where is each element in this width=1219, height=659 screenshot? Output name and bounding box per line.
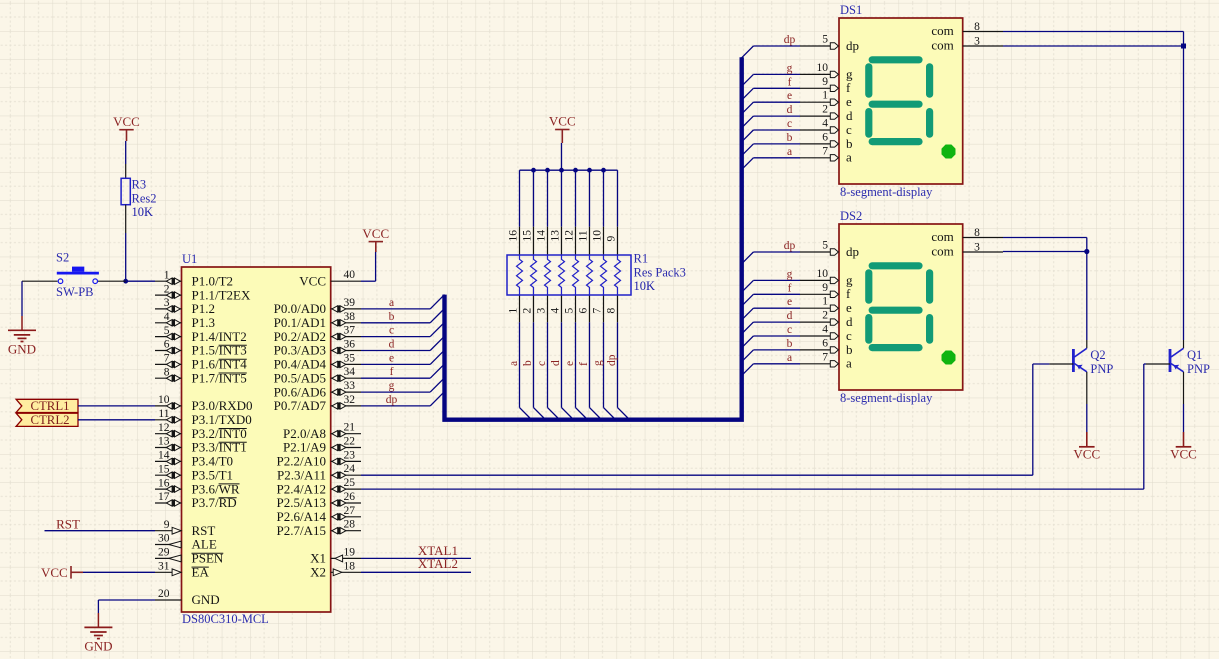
svg-text:g: g xyxy=(787,268,793,280)
svg-text:3: 3 xyxy=(974,242,980,254)
svg-text:P0.7/AD7: P0.7/AD7 xyxy=(274,398,327,413)
svg-text:P2.5/A13: P2.5/A13 xyxy=(277,495,326,510)
svg-text:P3.5/T1: P3.5/T1 xyxy=(192,467,234,482)
svg-text:d: d xyxy=(389,339,395,351)
svg-text:g: g xyxy=(592,360,604,366)
svg-text:VCC: VCC xyxy=(1073,447,1100,462)
svg-text:14: 14 xyxy=(158,450,170,462)
svg-text:GND: GND xyxy=(8,342,36,357)
svg-text:X2: X2 xyxy=(310,565,326,580)
svg-text:e: e xyxy=(787,296,792,308)
svg-text:36: 36 xyxy=(344,339,356,351)
svg-text:c: c xyxy=(536,361,548,366)
svg-text:10: 10 xyxy=(817,268,829,280)
svg-text:c: c xyxy=(787,324,792,336)
svg-text:7: 7 xyxy=(822,351,828,363)
svg-text:24: 24 xyxy=(344,463,356,475)
svg-text:38: 38 xyxy=(344,311,356,323)
svg-text:Res Pack3: Res Pack3 xyxy=(634,266,686,280)
svg-text:DS2: DS2 xyxy=(840,209,862,223)
svg-text:37: 37 xyxy=(344,325,356,337)
svg-text:P0.5/AD5: P0.5/AD5 xyxy=(274,370,326,385)
svg-text:6: 6 xyxy=(578,308,590,314)
svg-text:20: 20 xyxy=(158,588,170,600)
svg-text:6: 6 xyxy=(822,131,828,143)
svg-text:Q2: Q2 xyxy=(1090,348,1105,362)
svg-text:P3.4/T0: P3.4/T0 xyxy=(192,454,234,469)
svg-text:9: 9 xyxy=(822,282,828,294)
svg-text:P2.7/A15: P2.7/A15 xyxy=(277,523,326,538)
svg-text:18: 18 xyxy=(344,560,356,572)
svg-text:dp: dp xyxy=(784,240,796,252)
svg-text:3: 3 xyxy=(164,297,170,309)
svg-text:b: b xyxy=(846,342,853,357)
svg-text:8: 8 xyxy=(606,308,618,314)
svg-text:dp: dp xyxy=(784,34,796,46)
svg-text:13: 13 xyxy=(158,436,170,448)
svg-text:com: com xyxy=(931,229,953,244)
svg-text:VCC: VCC xyxy=(362,226,389,241)
svg-text:10K: 10K xyxy=(634,279,656,293)
svg-text:com: com xyxy=(931,38,953,53)
svg-text:2: 2 xyxy=(822,104,828,116)
svg-text:31: 31 xyxy=(158,561,170,573)
svg-text:8: 8 xyxy=(164,366,170,378)
svg-text:P0.0/AD0: P0.0/AD0 xyxy=(274,301,326,316)
svg-text:g: g xyxy=(787,62,793,74)
svg-text:10: 10 xyxy=(592,230,604,242)
svg-text:DS80C310-MCL: DS80C310-MCL xyxy=(182,612,269,626)
svg-text:2: 2 xyxy=(164,283,170,295)
svg-text:8: 8 xyxy=(974,21,980,33)
svg-text:13: 13 xyxy=(550,230,562,242)
svg-text:b: b xyxy=(846,136,853,151)
svg-text:14: 14 xyxy=(536,230,548,242)
svg-text:S2: S2 xyxy=(56,251,69,265)
svg-text:25: 25 xyxy=(344,477,356,489)
svg-text:10K: 10K xyxy=(132,205,154,219)
svg-text:8: 8 xyxy=(974,227,980,239)
svg-text:RST: RST xyxy=(56,516,80,531)
svg-text:d: d xyxy=(846,314,853,329)
svg-text:5: 5 xyxy=(164,325,170,337)
svg-text:P0.3/AD3: P0.3/AD3 xyxy=(274,343,326,358)
svg-text:CTRL2: CTRL2 xyxy=(30,413,69,427)
svg-text:VCC: VCC xyxy=(41,565,68,580)
svg-text:d: d xyxy=(550,360,562,366)
svg-text:ALE: ALE xyxy=(192,537,217,552)
svg-text:P1.0/T2: P1.0/T2 xyxy=(192,273,234,288)
svg-text:15: 15 xyxy=(158,463,170,475)
svg-text:a: a xyxy=(508,361,520,366)
svg-text:3: 3 xyxy=(974,36,980,48)
svg-text:P0.2/AD2: P0.2/AD2 xyxy=(274,329,326,344)
svg-text:2: 2 xyxy=(522,308,534,314)
svg-text:VCC: VCC xyxy=(113,114,140,129)
svg-text:22: 22 xyxy=(344,436,356,448)
svg-text:Res2: Res2 xyxy=(132,192,157,206)
svg-text:dp: dp xyxy=(386,394,398,406)
svg-text:U1: U1 xyxy=(182,252,197,266)
svg-text:4: 4 xyxy=(822,118,828,130)
svg-text:P2.6/A14: P2.6/A14 xyxy=(277,509,327,524)
svg-text:7: 7 xyxy=(822,145,828,157)
svg-text:P1.1/T2EX: P1.1/T2EX xyxy=(192,287,251,302)
svg-text:b: b xyxy=(787,132,793,144)
svg-text:VCC: VCC xyxy=(549,114,576,129)
svg-text:P0.1/AD1: P0.1/AD1 xyxy=(274,315,326,330)
svg-text:dp: dp xyxy=(846,244,859,259)
svg-text:11: 11 xyxy=(578,230,590,241)
svg-text:9: 9 xyxy=(606,236,618,242)
svg-text:P0.4/AD4: P0.4/AD4 xyxy=(274,357,327,372)
svg-text:15: 15 xyxy=(522,230,534,242)
svg-text:34: 34 xyxy=(344,366,356,378)
svg-text:d: d xyxy=(846,108,853,123)
svg-text:PNP: PNP xyxy=(1090,362,1113,376)
svg-text:P1.4/INT2: P1.4/INT2 xyxy=(192,329,247,344)
svg-text:PNP: PNP xyxy=(1187,362,1210,376)
svg-text:com: com xyxy=(931,23,953,38)
svg-text:9: 9 xyxy=(822,76,828,88)
svg-text:g: g xyxy=(846,272,853,287)
svg-text:SW-PB: SW-PB xyxy=(56,285,94,299)
svg-text:P1.3: P1.3 xyxy=(192,315,215,330)
svg-text:f: f xyxy=(788,282,792,294)
svg-text:e: e xyxy=(846,300,852,315)
svg-text:c: c xyxy=(846,328,852,343)
svg-text:b: b xyxy=(787,338,793,350)
svg-text:f: f xyxy=(390,366,394,378)
svg-text:a: a xyxy=(846,150,852,165)
svg-text:3: 3 xyxy=(536,308,548,314)
svg-text:e: e xyxy=(846,94,852,109)
svg-text:d: d xyxy=(787,310,793,322)
svg-text:com: com xyxy=(931,244,953,259)
svg-text:26: 26 xyxy=(344,491,356,503)
svg-text:8-segment-display: 8-segment-display xyxy=(840,185,933,199)
svg-text:f: f xyxy=(846,286,851,301)
svg-text:P2.1/A9: P2.1/A9 xyxy=(283,440,326,455)
svg-text:c: c xyxy=(846,122,852,137)
svg-text:5: 5 xyxy=(564,308,576,314)
svg-text:17: 17 xyxy=(158,491,170,503)
svg-text:P1.2: P1.2 xyxy=(192,301,215,316)
svg-text:7: 7 xyxy=(592,308,604,314)
svg-text:c: c xyxy=(787,118,792,130)
svg-text:X1: X1 xyxy=(310,551,326,566)
svg-text:d: d xyxy=(787,104,793,116)
svg-text:a: a xyxy=(846,356,852,371)
svg-text:40: 40 xyxy=(344,269,356,281)
svg-text:c: c xyxy=(389,325,394,337)
svg-text:23: 23 xyxy=(344,449,356,461)
svg-text:f: f xyxy=(846,80,851,95)
svg-text:Q1: Q1 xyxy=(1187,348,1202,362)
svg-text:16: 16 xyxy=(508,230,520,242)
svg-text:VCC: VCC xyxy=(1170,447,1197,462)
svg-text:R1: R1 xyxy=(634,252,649,266)
svg-text:a: a xyxy=(787,352,792,364)
svg-text:1: 1 xyxy=(164,269,170,281)
svg-text:RST: RST xyxy=(192,523,216,538)
svg-text:29: 29 xyxy=(158,547,170,559)
svg-text:21: 21 xyxy=(344,422,356,434)
svg-text:6: 6 xyxy=(822,337,828,349)
svg-text:VCC: VCC xyxy=(299,273,326,288)
svg-text:a: a xyxy=(389,297,394,309)
svg-text:DS1: DS1 xyxy=(840,3,862,17)
svg-text:12: 12 xyxy=(564,230,576,242)
svg-text:g: g xyxy=(846,66,853,81)
svg-text:30: 30 xyxy=(158,533,170,545)
svg-text:1: 1 xyxy=(822,296,828,308)
svg-text:P3.1/TXD0: P3.1/TXD0 xyxy=(192,412,252,427)
svg-text:P2.2/A10: P2.2/A10 xyxy=(277,454,326,469)
svg-text:f: f xyxy=(788,76,792,88)
svg-text:6: 6 xyxy=(164,339,170,351)
svg-text:4: 4 xyxy=(164,311,170,323)
svg-text:7: 7 xyxy=(164,353,170,365)
svg-text:a: a xyxy=(787,146,792,158)
svg-text:f: f xyxy=(578,362,590,366)
svg-text:1: 1 xyxy=(822,90,828,102)
svg-text:P2.4/A12: P2.4/A12 xyxy=(277,481,326,496)
svg-text:4: 4 xyxy=(550,308,562,314)
svg-text:19: 19 xyxy=(344,546,356,558)
svg-text:P3.0/RXD0: P3.0/RXD0 xyxy=(192,398,253,413)
svg-text:12: 12 xyxy=(158,422,170,434)
svg-text:GND: GND xyxy=(192,592,220,607)
svg-text:11: 11 xyxy=(158,408,169,420)
svg-text:5: 5 xyxy=(822,240,828,252)
svg-text:5: 5 xyxy=(822,34,828,46)
svg-text:35: 35 xyxy=(344,352,356,364)
svg-text:dp: dp xyxy=(846,38,859,53)
svg-text:28: 28 xyxy=(344,519,356,531)
svg-text:P0.6/AD6: P0.6/AD6 xyxy=(274,384,327,399)
svg-text:g: g xyxy=(389,380,395,392)
svg-text:10: 10 xyxy=(817,62,829,74)
svg-text:32: 32 xyxy=(344,394,356,406)
svg-text:8-segment-display: 8-segment-display xyxy=(840,391,933,405)
svg-text:4: 4 xyxy=(822,324,828,336)
svg-text:b: b xyxy=(522,360,534,366)
svg-text:e: e xyxy=(787,90,792,102)
svg-text:16: 16 xyxy=(158,477,170,489)
svg-text:P2.0/A8: P2.0/A8 xyxy=(283,426,326,441)
svg-text:b: b xyxy=(389,311,395,323)
svg-text:e: e xyxy=(564,361,576,366)
svg-text:10: 10 xyxy=(158,394,170,406)
svg-text:R3: R3 xyxy=(132,178,147,192)
svg-text:e: e xyxy=(389,352,394,364)
svg-text:dp: dp xyxy=(606,354,618,366)
svg-text:33: 33 xyxy=(344,380,356,392)
svg-text:39: 39 xyxy=(344,297,356,309)
svg-text:GND: GND xyxy=(84,639,112,654)
svg-text:2: 2 xyxy=(822,310,828,322)
svg-text:CTRL1: CTRL1 xyxy=(30,399,69,413)
svg-text:27: 27 xyxy=(344,505,356,517)
svg-text:9: 9 xyxy=(164,519,170,531)
svg-text:P2.3/A11: P2.3/A11 xyxy=(277,467,326,482)
svg-text:1: 1 xyxy=(508,308,520,314)
